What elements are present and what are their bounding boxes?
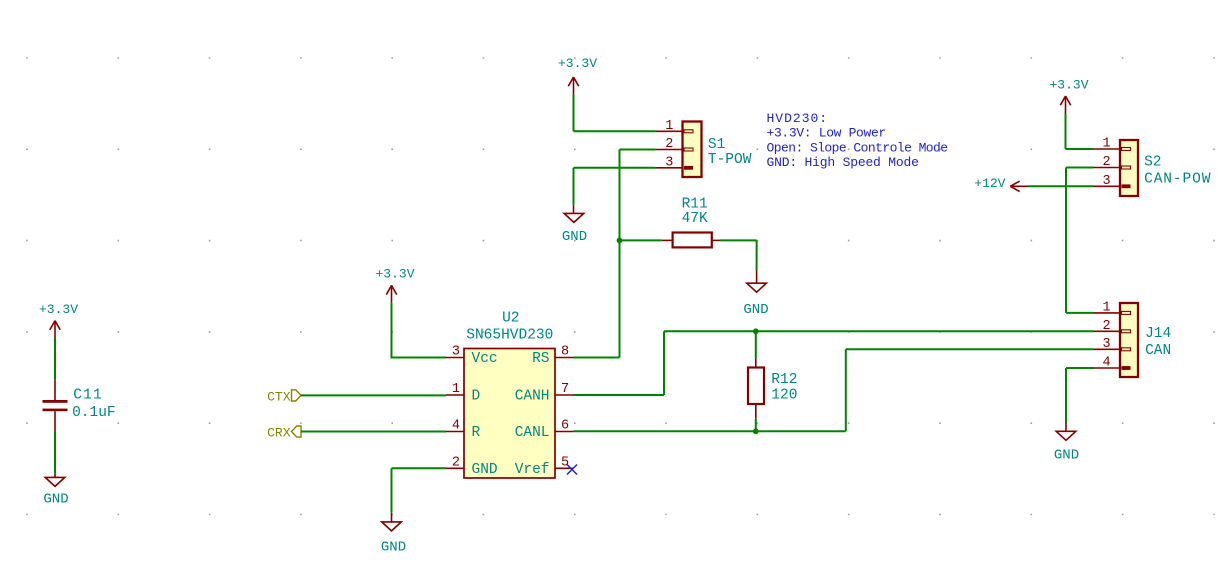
svg-text:4: 4 <box>1102 356 1110 371</box>
svg-text:GND: High Speed Mode: GND: High Speed Mode <box>767 155 919 170</box>
svg-text:RS: RS <box>532 351 549 367</box>
svg-text:2: 2 <box>1102 155 1110 170</box>
svg-text:2: 2 <box>665 137 673 152</box>
svg-text:47K: 47K <box>682 211 708 227</box>
svg-text:3: 3 <box>665 155 673 170</box>
svg-text:GND: GND <box>743 302 768 318</box>
svg-text:R12: R12 <box>771 372 797 388</box>
svg-text:1: 1 <box>1102 300 1110 315</box>
svg-text:SN65HVD230: SN65HVD230 <box>466 328 553 344</box>
svg-text:Vref: Vref <box>515 462 550 478</box>
svg-text:Open: Slope Controle Mode: Open: Slope Controle Mode <box>767 140 948 155</box>
svg-text:S1: S1 <box>708 137 725 153</box>
svg-text:Vcc: Vcc <box>472 351 498 367</box>
svg-text:3: 3 <box>1102 337 1110 352</box>
svg-text:GND: GND <box>1054 448 1079 464</box>
svg-text:J14: J14 <box>1145 326 1171 342</box>
svg-text:CTX: CTX <box>267 389 291 404</box>
svg-text:GND: GND <box>562 229 587 245</box>
svg-text:1: 1 <box>1102 137 1110 152</box>
svg-text:1: 1 <box>452 382 460 397</box>
svg-text:+3.3V: +3.3V <box>558 56 597 71</box>
svg-text:HVD230:: HVD230: <box>767 111 829 126</box>
svg-text:7: 7 <box>561 382 569 397</box>
svg-text:T-POW: T-POW <box>708 152 752 168</box>
svg-text:GND: GND <box>43 491 68 507</box>
svg-text:R: R <box>472 425 481 441</box>
svg-text:CANL: CANL <box>515 425 550 441</box>
svg-text:6: 6 <box>561 419 569 434</box>
svg-text:+3.3V: +3.3V <box>39 302 78 317</box>
svg-text:D: D <box>472 389 481 405</box>
svg-text:+12V: +12V <box>974 176 1005 191</box>
svg-text:CRX: CRX <box>267 426 291 441</box>
svg-text:CAN: CAN <box>1145 343 1171 359</box>
svg-text:C11: C11 <box>73 388 103 404</box>
svg-text:+3.3V: Low Power: +3.3V: Low Power <box>767 126 886 141</box>
svg-text:3: 3 <box>1102 174 1110 189</box>
svg-text:+3.3V: +3.3V <box>375 267 414 282</box>
svg-text:8: 8 <box>561 345 569 360</box>
svg-text:3: 3 <box>452 345 460 360</box>
svg-text:0.1uF: 0.1uF <box>72 405 116 421</box>
svg-text:CAN-POW: CAN-POW <box>1144 172 1211 188</box>
svg-text:GND: GND <box>472 462 498 478</box>
svg-text:2: 2 <box>1102 319 1110 334</box>
svg-text:4: 4 <box>452 419 460 434</box>
svg-text:+3.3V: +3.3V <box>1049 78 1088 93</box>
svg-text:120: 120 <box>771 387 797 403</box>
svg-text:U2: U2 <box>502 311 519 327</box>
svg-text:1: 1 <box>665 119 673 134</box>
svg-text:S2: S2 <box>1144 155 1161 171</box>
svg-text:CANH: CANH <box>515 389 550 405</box>
svg-text:5: 5 <box>561 456 569 471</box>
svg-text:GND: GND <box>381 540 406 556</box>
svg-text:2: 2 <box>452 456 460 471</box>
